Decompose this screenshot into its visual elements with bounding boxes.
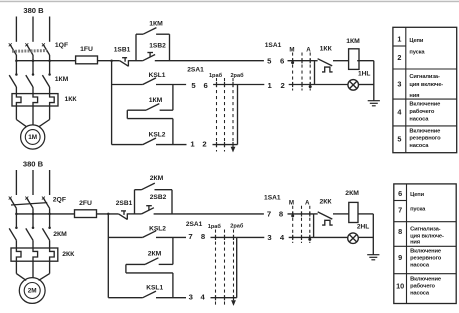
wire coil to ground drop (lower) [358,214,373,255]
wires 2KK to motor [16,261,49,280]
svg-text:1HL: 1HL [358,71,370,78]
svg-text:Включение: Включение [409,128,440,134]
wire merge vertical (lower) [236,237,238,297]
svg-text:ния: ния [410,240,420,246]
auxiliary contact 2KM (seal-in) [135,183,173,190]
table row divider [393,98,457,100]
selector switch 1SA1 (M/A columns) [293,53,311,91]
wire 2 into 1SA1 lower row [289,84,315,86]
level-switch contact KSL1 (lower) [108,291,186,298]
table number column divider [405,27,407,152]
svg-text:2SB1: 2SB1 [116,200,133,207]
seal-in branch verticals (2KM aux) [134,190,136,214]
circuit breaker 2QF [9,197,50,214]
svg-text:KSL2: KSL2 [149,225,166,232]
svg-text:6: 6 [280,56,284,65]
svg-text:Сигнализа-: Сигнализа- [409,74,440,80]
seal-in branch verticals (1KM aux) [135,34,137,61]
svg-text:Цепи: Цепи [410,192,424,198]
wire KSL1 row to 1SA1 lower row [238,84,265,86]
svg-text:пуска: пуска [410,206,426,212]
svg-text:ния: ния [409,93,419,99]
wire lower-branch return (lower) [126,264,173,273]
svg-text:2раб: 2раб [230,223,244,230]
svg-text:6: 6 [398,189,402,198]
svg-text:ция включе-: ция включе- [410,233,444,239]
svg-text:1КМ: 1КМ [346,38,360,45]
svg-text:2КК: 2КК [62,251,75,258]
wire feed bus to fuse [16,60,75,62]
table row divider [393,68,457,70]
svg-text:насоса: насоса [409,116,429,122]
wire branch vertical upper [172,85,174,111]
svg-text:6: 6 [204,81,208,90]
svg-text:2КМ: 2КМ [53,231,67,238]
svg-text:10: 10 [396,282,404,291]
auxiliary contact 2KM (lower branch) [126,258,173,265]
wire phase lines to 1QF [15,17,17,42]
svg-text:2: 2 [202,139,206,148]
svg-text:1SB2: 1SB2 [149,42,166,49]
wire phase lines to 2QF [15,170,17,195]
motor 2M [19,278,45,304]
wire main run to selector 1SA1 (lower) [154,213,264,215]
table row divider [394,273,456,275]
start button 2SB2 [142,206,154,214]
svg-text:2КМ: 2КМ [148,251,162,258]
wire KSL2 row to selector lower row [237,236,265,238]
wire left control bus vertical (lower) [107,214,109,298]
svg-text:7: 7 [188,232,192,241]
thermal relay contact 1KK [315,59,349,72]
signal lamp 1HL [315,80,374,91]
svg-text:2КМ: 2КМ [150,175,164,182]
svg-text:1: 1 [397,34,401,43]
svg-text:8: 8 [398,227,402,236]
svg-text:1FU: 1FU [80,46,93,53]
wire left control bus (vertical) [111,61,113,145]
svg-text:Цепи: Цепи [409,38,423,44]
auxiliary contact 1KM (lower branch) [127,104,173,111]
svg-text:2: 2 [397,53,401,62]
svg-text:М: М [289,46,294,53]
svg-text:2QF: 2QF [53,196,66,203]
svg-text:2FU: 2FU [79,200,92,207]
wire rows tie vertical [314,61,316,85]
svg-text:2SA1: 2SA1 [186,221,203,228]
thermal overload relay 2KK (heaters) [11,248,58,261]
wire merge vertical to KSL1 row [237,85,239,145]
svg-text:380 В: 380 В [23,159,44,168]
svg-text:Включение: Включение [410,248,441,254]
svg-text:2М: 2М [28,288,37,295]
svg-text:1QF: 1QF [55,42,68,49]
svg-text:1М: 1М [28,134,37,141]
svg-text:2HL: 2HL [357,224,369,231]
svg-text:5: 5 [397,135,401,144]
svg-text:2SA1: 2SA1 [187,66,204,73]
svg-text:рабочего: рабочего [409,108,434,115]
svg-text:3: 3 [189,292,193,301]
svg-text:А: А [306,47,311,54]
svg-text:2: 2 [280,81,284,90]
fuse 1FU [76,56,98,64]
ground (upper circuit) [368,100,380,102]
svg-text:1КК: 1КК [64,96,77,103]
svg-text:насоса: насоса [410,290,430,296]
table row divider [393,125,457,127]
circuit breaker 1QF [9,43,50,60]
svg-text:1раб: 1раб [208,223,222,230]
wire branch vertical lower [172,119,174,145]
svg-text:3: 3 [267,233,271,242]
wire feed bus to fuse 2FU [16,213,74,215]
level-switch contact KSL1 [112,78,187,85]
svg-text:1: 1 [268,81,273,90]
svg-text:KSL2: KSL2 [149,131,166,138]
wire KSL1 row through 2SA1 [213,84,237,86]
svg-text:Включение: Включение [410,276,441,282]
table frame [393,27,457,152]
junction dots on feed bus [15,59,18,62]
svg-text:4: 4 [201,292,206,301]
svg-text:пуска: пуска [409,50,425,56]
fuse 2FU [75,210,97,218]
svg-text:насоса: насоса [409,143,429,149]
svg-text:7: 7 [267,210,271,219]
svg-text:1КМ: 1КМ [149,97,163,104]
1SA1 closed dot row 3-4 [308,238,311,241]
selector switch 2SA1 (position columns) [217,78,234,152]
svg-text:Сигнализа-: Сигнализа- [410,226,441,232]
table number column divider [406,184,408,304]
svg-text:2SB2: 2SB2 [150,194,167,201]
stop button 2SB1 [119,211,128,220]
svg-text:ция включе-: ция включе- [409,82,443,88]
svg-text:4: 4 [280,233,285,242]
wire lower-branch return [127,110,173,118]
svg-text:7: 7 [398,206,402,215]
svg-text:1раб: 1раб [209,72,223,79]
contactor 2KM main contacts [9,214,51,248]
contactor coil 2KM [349,202,358,222]
wire branch vertical upper (lower half) [172,237,174,264]
table row divider [394,221,456,223]
svg-text:Включение: Включение [409,101,440,107]
wire fuse to control junction [98,60,120,62]
svg-text:2КК: 2КК [319,199,332,206]
2QF mechanical linkage [11,203,47,205]
table row divider [394,245,456,247]
thermal overload relay 1KK (heaters) [12,94,58,106]
level-switch contact KSL2 (lower) [108,231,186,238]
wire rows tie vertical (lower) [313,214,315,238]
svg-text:9: 9 [398,253,402,262]
wire KSL2 row through 2SA1 (lower) [211,236,237,238]
svg-text:насоса: насоса [410,262,430,268]
selector switch 1SA1 (lower, M/A columns) [293,206,310,243]
svg-text:1SB1: 1SB1 [114,46,131,53]
svg-text:2раб: 2раб [230,72,244,79]
motor 1M [21,125,45,149]
svg-text:8: 8 [279,210,284,219]
svg-text:380 В: 380 В [23,6,44,15]
svg-text:5: 5 [191,81,196,90]
junction dots on feed bus (lower) [15,213,18,216]
stop button 1SB1 [120,58,129,67]
table row divider [394,200,407,202]
svg-text:8: 8 [201,232,206,241]
svg-text:А: А [305,199,310,206]
svg-text:1КК: 1КК [320,45,333,52]
2SA1 position arrow (lower) [232,301,236,305]
svg-text:1SA1: 1SA1 [264,195,281,202]
wire 4 into selector lower row [289,236,314,238]
wire KSL1 row through 2SA1 (lower) [211,297,237,299]
contactor 1KM main contacts [9,61,51,94]
svg-text:1КМ: 1КМ [55,76,69,83]
ground (lower circuit) [367,254,379,256]
svg-text:1КМ: 1КМ [149,20,163,27]
svg-text:KSL1: KSL1 [146,284,163,291]
svg-text:1SA1: 1SA1 [265,42,282,49]
1SA1 closed-position dot row 1-2 [309,85,312,88]
wire coil to ground drop [357,61,374,101]
level-switch contact KSL2 [112,138,187,145]
junction node control branch (lower) [107,213,110,216]
svg-text:1: 1 [190,139,195,148]
svg-text:М: М [289,199,294,206]
svg-text:2КМ: 2КМ [345,190,359,197]
auxiliary contact 1KM (seal-in) [136,28,170,35]
thermal relay contact 2KK [314,212,349,225]
1QF mechanical linkage [12,49,47,53]
1SA1 closed dot row 7-8 [291,214,294,217]
wire main run to selector 1SA1 [155,60,264,62]
wires 1KK to motor [16,106,49,127]
svg-text:резервного: резервного [410,255,442,261]
table row divider [393,45,406,47]
table frame [394,184,456,304]
signal lamp 2HL [314,233,374,244]
svg-text:3: 3 [397,80,401,89]
wire branch vertical lower (lower half) [172,273,174,298]
selector switch 2SA1 (lower, position columns) [216,230,234,306]
junction node control branch [110,59,113,62]
svg-text:KSL1: KSL1 [149,72,166,79]
2SA1 position arrow [231,147,235,151]
svg-text:резервного: резервного [409,135,441,141]
svg-text:5: 5 [267,56,272,65]
start button 1SB2 [143,53,155,61]
wire 6 into 1SA1 [288,60,315,62]
contactor coil 1KM [349,49,359,70]
wire 2SB1 to seal-in branch (lower) [127,213,141,215]
1SA1 closed-position dot row 5-6 [291,61,294,64]
wire 8 into selector [288,213,314,215]
wire 1SB1 to seal-in branch [128,60,142,62]
wire fuse to control junction (lower) [97,213,119,215]
wire KSL2 row through 2SA1 [213,144,238,146]
svg-text:рабочего: рабочего [410,282,435,289]
